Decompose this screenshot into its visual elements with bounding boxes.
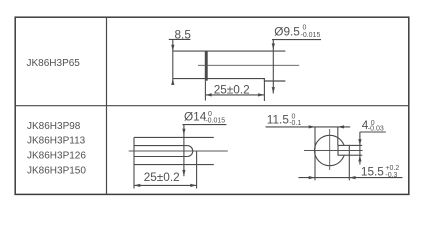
row2 dia14 underline xyxy=(182,124,226,126)
row1 dia9.5 dim vertical xyxy=(272,40,274,94)
15.5-dim arrows xyxy=(309,176,315,179)
circle v-centerline xyxy=(329,129,331,170)
row1 25-dim right extension xyxy=(263,79,265,101)
row1 25-dim arrows xyxy=(205,93,211,96)
4-dim arrows xyxy=(358,139,361,145)
row2 centerline xyxy=(129,150,228,152)
svg-text:-0.03: -0.03 xyxy=(368,126,384,133)
row2 keyway slot bottom line xyxy=(134,156,187,158)
15.5-dim line xyxy=(299,177,403,179)
row2 25-dim right extension xyxy=(196,151,198,189)
svg-text:11.5: 11.5 xyxy=(267,113,290,127)
svg-text:JK86H3P126: JK86H3P126 xyxy=(27,151,86,162)
11.5-dim left extension xyxy=(314,127,316,149)
11.5-dim line xyxy=(266,126,351,128)
svg-text:-0.015: -0.015 xyxy=(301,32,321,39)
4-dim underline xyxy=(360,131,386,133)
row2 shaft bottom line xyxy=(134,164,214,166)
svg-text:-0.1: -0.1 xyxy=(289,120,301,127)
table outer border xyxy=(15,17,409,194)
row2 shaft top line xyxy=(134,136,214,138)
circle h-centerline xyxy=(304,150,363,152)
table row separator xyxy=(15,105,409,107)
svg-text:25±0.2: 25±0.2 xyxy=(144,170,180,184)
8.5 dim arrows xyxy=(171,45,174,51)
row1 centerline xyxy=(198,64,299,66)
svg-text:JK86H3P150: JK86H3P150 xyxy=(27,165,86,176)
dia14 dim arrows xyxy=(182,129,185,135)
table column separator xyxy=(106,17,108,194)
key rectangle xyxy=(338,145,349,155)
row1 shaft left end / 8.5 dim line xyxy=(172,39,174,85)
4-dim extension stubs from key xyxy=(349,144,362,146)
svg-text:JK86H3P98: JK86H3P98 xyxy=(27,121,81,132)
svg-text:-0.015: -0.015 xyxy=(205,118,225,125)
svg-text:JK86H3P113: JK86H3P113 xyxy=(27,136,86,147)
dia9.5 dim arrows xyxy=(272,43,275,49)
4-dim vertical line xyxy=(359,132,361,165)
row1 dia9.5 underline xyxy=(272,39,321,41)
row2 keyway slot round end xyxy=(187,146,192,157)
row1 shaft bottom line xyxy=(173,79,265,81)
svg-text:8.5: 8.5 xyxy=(175,27,192,41)
row1 flat end thick bar xyxy=(205,51,208,81)
row1 8.5 dim leader underline xyxy=(169,38,191,40)
row1 shaft top line xyxy=(173,50,286,52)
row1 25-dim left extension xyxy=(204,81,206,101)
11.5/15.5 shared left extension lower part xyxy=(314,151,316,181)
row2 25-dim line xyxy=(134,184,197,186)
row2 shaft left end / 25-dim extension xyxy=(133,137,135,188)
15.5-dim right extension xyxy=(348,155,350,180)
row1 25-dim line xyxy=(205,94,264,96)
svg-text:JK86H3P65: JK86H3P65 xyxy=(27,58,81,69)
svg-text:-0.3: -0.3 xyxy=(385,172,397,179)
svg-text:25±0.2: 25±0.2 xyxy=(214,83,250,97)
svg-text:Ø14: Ø14 xyxy=(184,109,207,123)
circle cross-section xyxy=(315,135,345,165)
row2 keyway slot top line xyxy=(134,145,187,147)
arrowheads xyxy=(134,43,362,187)
11.5-dim right extension xyxy=(337,127,339,145)
row2 dia14 dim vertical xyxy=(183,125,185,177)
svg-text:Ø9.5: Ø9.5 xyxy=(274,25,300,39)
svg-text:0: 0 xyxy=(303,25,307,32)
11.5-dim arrows xyxy=(309,125,315,128)
svg-text:15.5: 15.5 xyxy=(361,164,384,178)
row2 25-dim arrows xyxy=(134,184,140,187)
